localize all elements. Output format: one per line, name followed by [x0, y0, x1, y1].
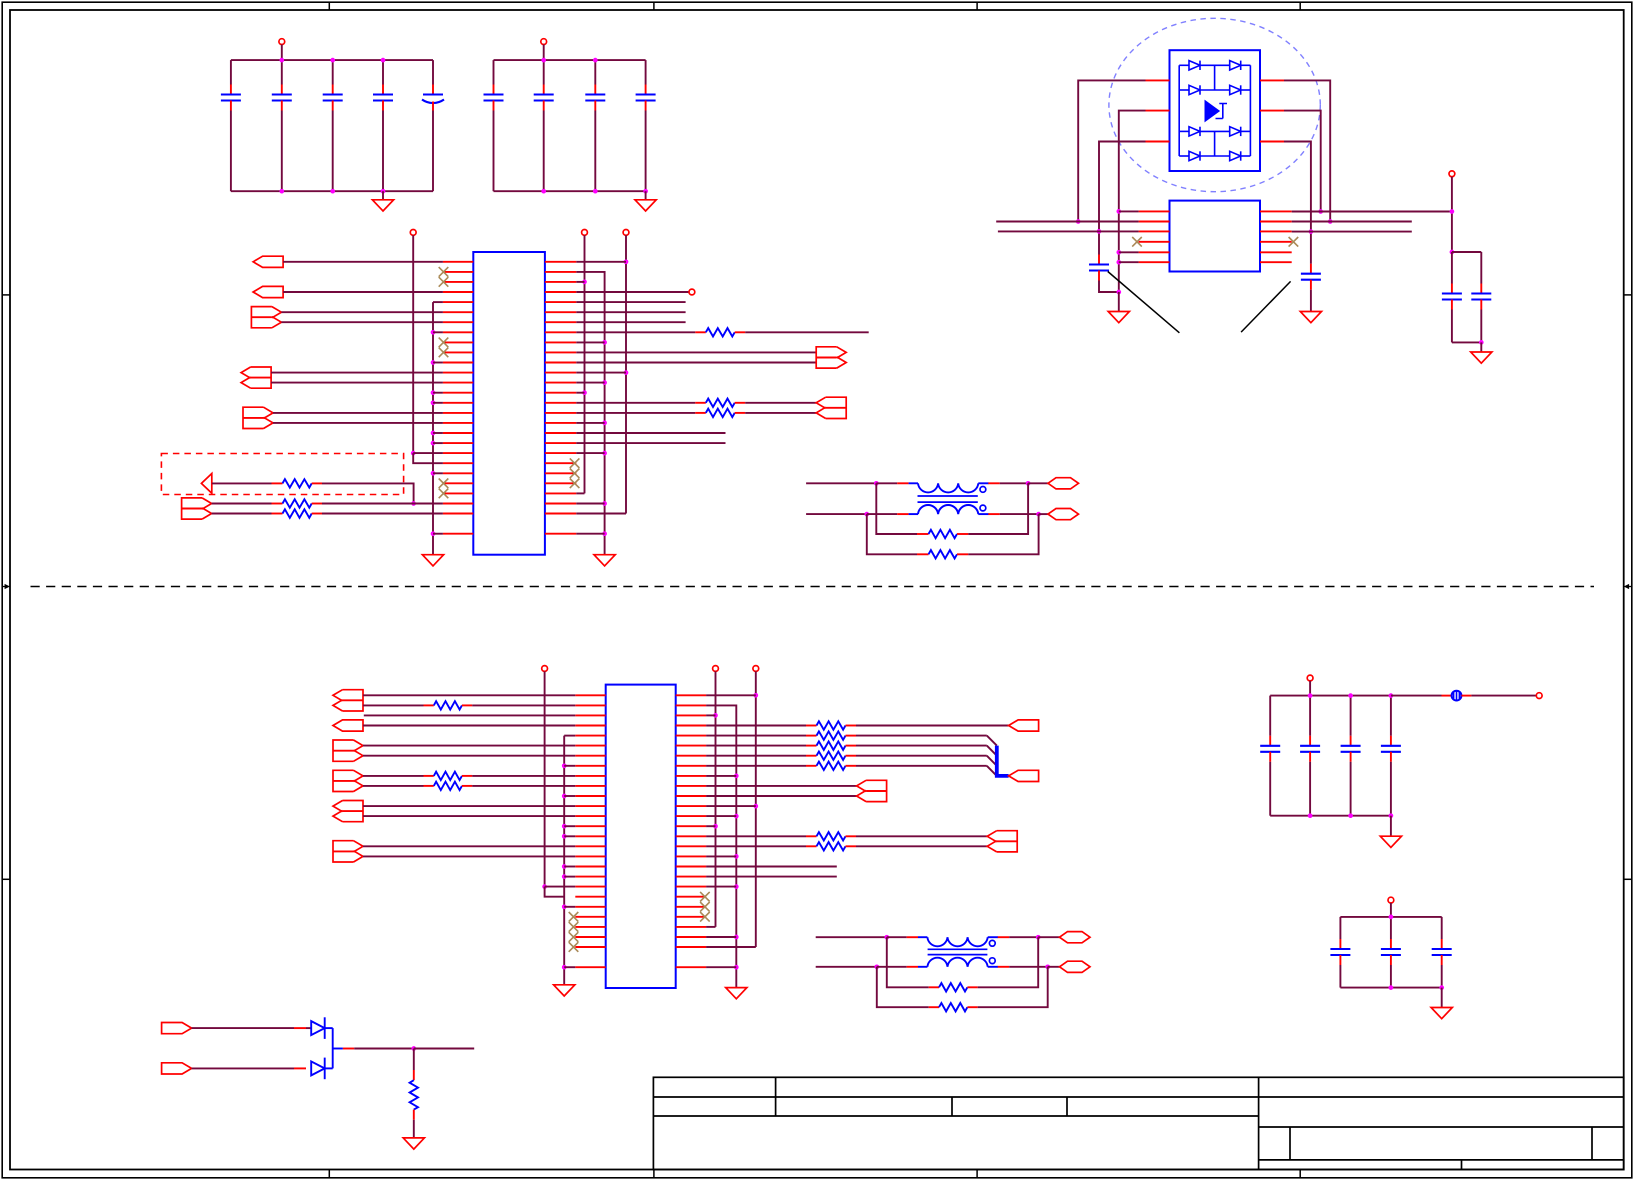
junction: [1116, 209, 1121, 214]
wire: [856, 845, 987, 847]
junction: [431, 471, 436, 476]
wire: [876, 482, 897, 484]
junction: [734, 814, 739, 819]
junction: [562, 824, 567, 829]
wire: [281, 111, 283, 192]
pin: [907, 936, 918, 938]
junction: [1116, 290, 1121, 295]
wire: [576, 331, 695, 333]
wire: [564, 795, 575, 797]
capacitor C20: [1432, 939, 1452, 965]
pin: [1260, 221, 1292, 223]
no-connect: [569, 922, 579, 932]
wire: [1284, 80, 1330, 221]
resistor R20: [939, 1003, 967, 1011]
wire: [887, 937, 929, 987]
pin: [272, 482, 283, 484]
wire: [363, 815, 575, 817]
wire: [576, 362, 816, 364]
wire: [877, 966, 907, 968]
pin: [929, 1006, 939, 1008]
wire: [1451, 252, 1453, 284]
wire: [1452, 341, 1481, 343]
junction: [1450, 209, 1455, 214]
wire: [1000, 513, 1039, 515]
pin: [462, 775, 472, 777]
ground: [594, 555, 615, 566]
pin: [1260, 241, 1292, 243]
transformer T2 core: [928, 948, 988, 950]
wire: [706, 946, 756, 948]
wire: [584, 235, 586, 493]
wire: [576, 301, 685, 303]
power port P8: [542, 666, 548, 672]
junction: [734, 935, 739, 940]
capacitor C17: [1381, 736, 1401, 762]
pin: [1260, 230, 1292, 232]
resistor R19: [939, 983, 967, 991]
wire: [543, 45, 545, 61]
wire: [576, 261, 626, 263]
junction: [562, 794, 567, 799]
transformer T1 primary: [909, 483, 989, 492]
capacitor C1: [221, 85, 241, 111]
wire: [1009, 936, 1038, 938]
pin: [1139, 221, 1170, 223]
wire: [576, 281, 584, 283]
wire: [363, 745, 575, 747]
wire: [987, 746, 997, 756]
pin: [917, 553, 929, 555]
wire: [1241, 155, 1251, 157]
wire: [576, 372, 626, 374]
wire: [322, 483, 414, 503]
ground: [1380, 836, 1401, 847]
wire: [433, 362, 443, 364]
wire: [706, 815, 736, 817]
node OR-out: [325, 1027, 333, 1029]
wire: [363, 845, 575, 847]
no-connect: [1132, 237, 1142, 247]
wire: [715, 671, 717, 927]
node GND2 rail: [494, 190, 646, 192]
power port P11: [1307, 675, 1313, 681]
junction: [1389, 915, 1394, 920]
power port P10: [753, 666, 759, 672]
junction: [1116, 250, 1121, 255]
wire: [273, 412, 443, 414]
port C4: [333, 770, 363, 791]
ferrite bead FB1: [1452, 691, 1462, 701]
wire: [564, 876, 575, 878]
wire: [1452, 251, 1481, 253]
pin: [413, 1070, 415, 1080]
no-connect: [439, 479, 449, 489]
resistor R6: [706, 409, 735, 417]
port A6: [201, 474, 211, 494]
pin: [312, 513, 322, 515]
port A9: [816, 397, 846, 418]
capacitor C13: [1471, 284, 1491, 310]
wire: [414, 1048, 474, 1050]
wire: [1099, 281, 1119, 293]
wire: [382, 111, 384, 192]
port C8: [1009, 770, 1039, 781]
pin: [846, 735, 857, 737]
junction: [602, 531, 607, 536]
pin: [1260, 251, 1292, 253]
wire: [1292, 211, 1452, 213]
pin: [462, 785, 472, 787]
junction: [1036, 935, 1041, 940]
wire: [363, 785, 424, 787]
wire: [968, 514, 1038, 554]
resistor R7: [929, 530, 958, 538]
port D-in2: [162, 1063, 192, 1074]
wire: [363, 855, 575, 857]
wire: [576, 452, 604, 454]
port C5: [333, 801, 363, 822]
resistor R1: [283, 479, 312, 487]
junction: [602, 501, 607, 506]
wire: [645, 60, 647, 84]
port C6: [333, 841, 363, 862]
wire: [363, 694, 575, 696]
wire: [706, 926, 715, 928]
wire: [877, 967, 929, 1007]
wire: [576, 382, 604, 384]
resistor R18: [817, 842, 846, 850]
junction: [1479, 340, 1484, 345]
wire: [192, 1067, 294, 1069]
junction: [1450, 250, 1455, 255]
wire: [472, 785, 575, 787]
junction: [562, 965, 567, 970]
wire: [413, 1120, 415, 1138]
ground: [372, 200, 393, 211]
wire: [706, 785, 857, 787]
wire: [706, 886, 736, 888]
capacitor C14: [1260, 736, 1280, 762]
wire: [1441, 965, 1443, 988]
wire: [433, 331, 443, 333]
separator arrow left: [2, 584, 10, 589]
wire: [625, 235, 627, 513]
wire: [1284, 142, 1311, 264]
junction: [643, 189, 648, 194]
junction: [713, 824, 718, 829]
wire: [363, 725, 575, 727]
ground: [1108, 312, 1129, 323]
ground: [1300, 312, 1321, 323]
power port P7: [1449, 171, 1455, 177]
wire: [1039, 513, 1048, 515]
wire: [706, 705, 736, 987]
wire: [564, 866, 575, 868]
wire: [856, 755, 987, 757]
resistor R17: [817, 832, 846, 840]
wire: [322, 503, 443, 505]
junction: [1026, 481, 1031, 486]
U1 left pins: [443, 262, 473, 534]
pin: [735, 331, 746, 333]
wire: [564, 906, 575, 908]
wire: [413, 453, 443, 463]
junction: [562, 763, 567, 768]
junction: [1348, 813, 1353, 818]
wire: [1119, 251, 1139, 253]
callout line: [1241, 281, 1291, 332]
junction: [1308, 813, 1313, 818]
TVS symbol: [1205, 101, 1219, 122]
wire: [706, 735, 806, 737]
wire: [645, 111, 647, 192]
wire: [576, 341, 604, 343]
wire: [867, 513, 897, 515]
pin: [1260, 210, 1292, 212]
pin: [735, 402, 746, 404]
wire: [212, 482, 272, 484]
wire: [576, 533, 604, 535]
port A1: [253, 256, 283, 267]
node VDD rail: [1270, 695, 1391, 697]
wire: [1390, 903, 1392, 917]
wire: [968, 483, 1028, 534]
diode D9: [311, 1017, 325, 1039]
wire: [576, 422, 604, 424]
pin: [1146, 141, 1170, 143]
resistor R8: [929, 550, 958, 558]
node VCC2 rail: [494, 59, 646, 61]
wire: [1200, 155, 1230, 157]
wire: [306, 1027, 311, 1029]
pin: [1260, 79, 1284, 81]
capacitor C18: [1330, 939, 1350, 965]
junction: [431, 441, 436, 446]
U2 right pins: [676, 695, 706, 967]
junction: [734, 774, 739, 779]
wire: [706, 845, 806, 847]
junction: [1389, 693, 1394, 698]
wire: [576, 503, 604, 505]
wire: [433, 533, 443, 535]
wire: [1441, 988, 1443, 1008]
wire: [1119, 261, 1139, 263]
pin: [846, 845, 857, 847]
node VCC1 rail: [231, 59, 433, 61]
wire: [212, 513, 272, 515]
no-connect: [570, 458, 580, 468]
junction: [734, 884, 739, 889]
capacitor C2: [272, 85, 292, 111]
diode D1: [1189, 61, 1200, 70]
power port P3: [410, 230, 416, 236]
wire: [706, 876, 837, 878]
junction: [602, 451, 607, 456]
highlight ellipse: [1109, 18, 1320, 191]
diode D8: [1230, 151, 1241, 160]
no-connect: [1289, 237, 1299, 247]
pin: [1139, 261, 1170, 263]
resistor R21: [410, 1080, 418, 1109]
wire: [576, 442, 725, 444]
junction: [602, 380, 607, 385]
wire: [856, 725, 1009, 727]
port C10: [987, 831, 1017, 852]
wire: [987, 756, 997, 766]
pin: [294, 1027, 306, 1029]
wire: [281, 321, 443, 323]
wire: [1119, 210, 1139, 212]
wire: [413, 1049, 415, 1071]
wire: [576, 272, 604, 555]
wire: [1339, 965, 1341, 988]
wire: [1200, 89, 1230, 91]
wire: [1390, 696, 1392, 736]
wire: [576, 392, 584, 394]
title block: [653, 1077, 1623, 1169]
wire: [806, 482, 876, 484]
pin: [1260, 261, 1292, 263]
wire: [545, 887, 565, 897]
wire: [432, 111, 434, 192]
wire: [543, 60, 545, 84]
junction: [1308, 693, 1313, 698]
no-connect: [439, 348, 449, 358]
capacitor C9: [636, 85, 656, 111]
wire: [576, 321, 685, 323]
diode D6: [1230, 127, 1241, 136]
junction: [874, 964, 879, 969]
capacitor C7: [534, 85, 554, 111]
wire: [273, 422, 443, 424]
wire: [1480, 342, 1482, 352]
wire: [354, 1048, 414, 1050]
power port P5: [623, 230, 629, 236]
pin: [897, 513, 908, 515]
port A4: [241, 367, 271, 388]
junction: [1348, 693, 1353, 698]
power port P12: [1536, 693, 1542, 699]
wire: [271, 382, 443, 384]
wire: [706, 714, 715, 716]
wire: [1480, 310, 1482, 343]
pin: [1260, 141, 1284, 143]
junction: [582, 280, 587, 285]
junction: [593, 189, 598, 194]
transformer T1 core: [918, 495, 978, 497]
wire: [1390, 917, 1392, 939]
wire: [281, 311, 443, 313]
no-connect: [700, 912, 710, 922]
junction: [542, 884, 547, 889]
junction: [734, 854, 739, 859]
no-connect: [569, 932, 579, 942]
wire: [1480, 252, 1482, 284]
junction: [411, 451, 416, 456]
bus: [997, 746, 1009, 776]
wire: [1099, 142, 1146, 255]
wire: [998, 230, 1139, 232]
diode D5: [1189, 127, 1200, 136]
wire: [363, 755, 575, 757]
wire: [856, 765, 987, 767]
DNP area: [161, 454, 403, 495]
no-connect: [439, 489, 449, 499]
port C3: [333, 740, 363, 761]
wire: [576, 513, 626, 515]
wire: [576, 492, 584, 494]
transformer T2 secondary: [918, 958, 998, 967]
wire: [1390, 762, 1392, 816]
pin: [957, 553, 968, 555]
wire: [706, 936, 736, 938]
power port P1: [279, 39, 285, 45]
junction: [864, 512, 869, 517]
wire: [706, 725, 806, 727]
ground: [726, 988, 747, 999]
junction: [431, 360, 436, 365]
wire: [332, 60, 334, 84]
wire: [645, 191, 647, 200]
pin: [424, 704, 434, 706]
wire: [706, 694, 756, 696]
wire: [706, 765, 806, 767]
capacitor C19: [1381, 939, 1401, 965]
junction: [1309, 229, 1314, 234]
wire: [281, 60, 283, 84]
wire: [1391, 695, 1442, 697]
port B1: [1048, 478, 1079, 489]
wire: [745, 412, 816, 414]
wire: [564, 966, 575, 968]
resistor R15: [817, 752, 846, 760]
pin: [806, 845, 817, 847]
wire: [1451, 310, 1453, 343]
junction: [624, 370, 629, 375]
resistor R10: [434, 772, 462, 780]
junction: [602, 340, 607, 345]
wire: [1471, 695, 1536, 697]
wire: [364, 714, 576, 716]
wire: [1048, 966, 1060, 968]
wire: [493, 60, 495, 84]
no-connect: [439, 267, 449, 277]
wire: [413, 452, 443, 454]
pin: [998, 966, 1010, 968]
wire: [1309, 681, 1311, 696]
wire: [363, 775, 424, 777]
wire: [564, 735, 575, 737]
callout line: [1108, 272, 1180, 333]
no-connect: [570, 469, 580, 479]
wire: [1200, 64, 1230, 66]
IC U3 bridge: [1170, 50, 1261, 171]
wire: [594, 60, 596, 84]
resistor R12: [817, 721, 846, 729]
junction: [431, 330, 436, 335]
wire: [1339, 917, 1341, 939]
port A5: [243, 407, 273, 428]
wire: [576, 311, 685, 313]
pin: [1461, 695, 1471, 697]
junction: [1036, 512, 1041, 517]
junction: [1439, 985, 1444, 990]
wire: [978, 967, 1048, 1007]
ground: [403, 1138, 424, 1149]
wire: [432, 60, 434, 84]
wire: [887, 936, 907, 938]
